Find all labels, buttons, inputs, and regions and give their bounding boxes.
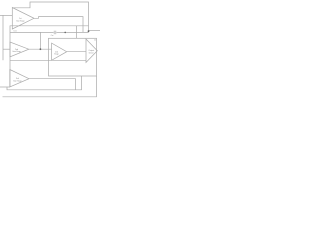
svg-text:Cm1: Cm1 (13, 31, 16, 33)
svg-text:Gain Stage: Gain Stage (13, 79, 22, 82)
svg-text:C2: C2 (94, 40, 96, 42)
svg-text:Gain Stage: Gain Stage (12, 50, 21, 53)
svg-text:Stage: Stage (54, 53, 58, 56)
svg-text:Gain Stage: Gain Stage (16, 20, 25, 23)
svg-text:Cm: Cm (51, 35, 54, 37)
svg-text:Driver: Driver (89, 51, 94, 54)
